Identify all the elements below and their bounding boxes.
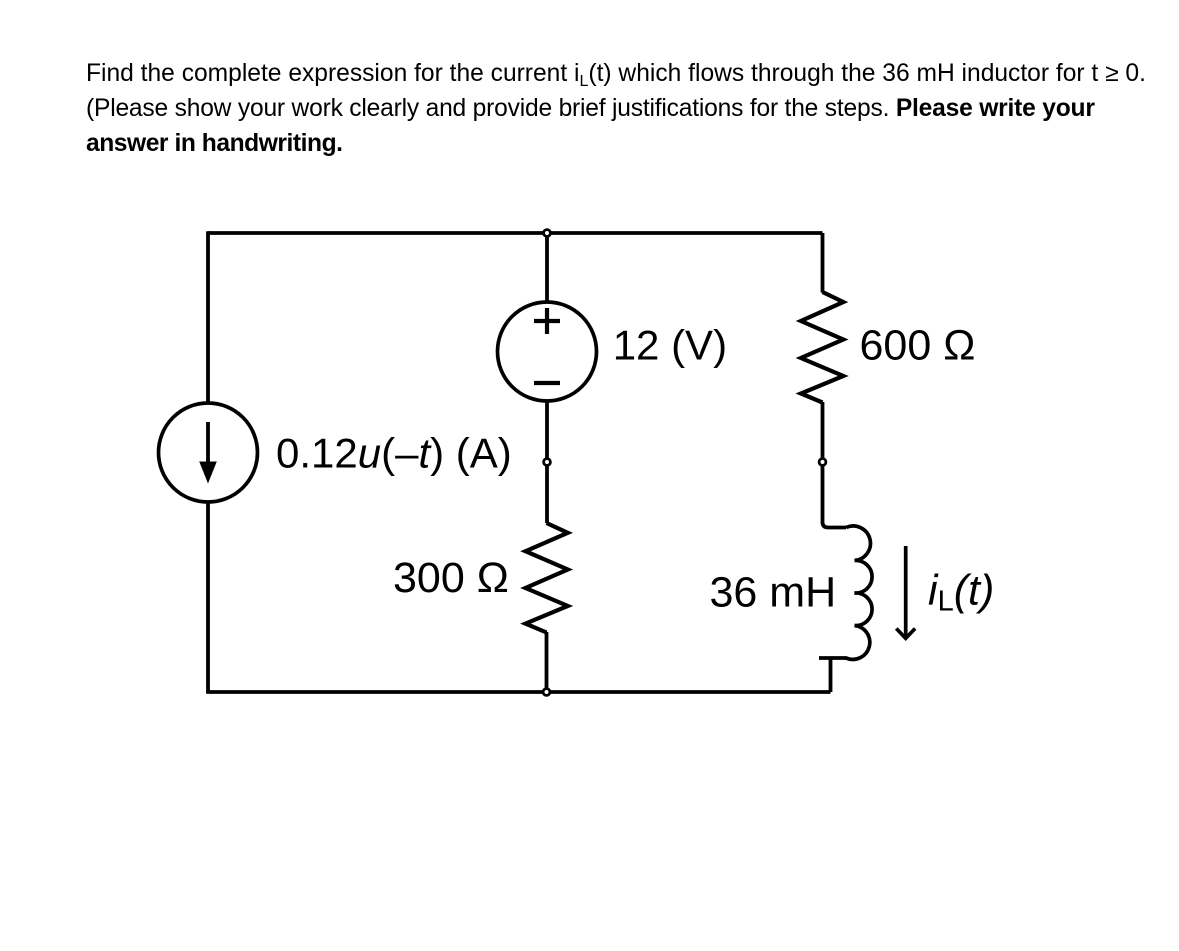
node middle branch [544, 459, 551, 466]
wire right branch between resistor and inductor [821, 402, 825, 524]
node bottom junction [543, 689, 550, 696]
current source I1 0.12u(-t) A [159, 403, 258, 502]
wire bottom horizontal [206, 690, 830, 694]
wire middle branch below resistor [545, 632, 549, 692]
wire inductor bottom pigtail [829, 658, 833, 692]
wire middle branch upper [545, 233, 549, 303]
svg-text:12 (V): 12 (V) [613, 322, 727, 369]
resistor 300 ohm [526, 523, 568, 633]
wire top horizontal [208, 231, 823, 235]
svg-text:300 Ω: 300 Ω [393, 554, 509, 602]
wire left vertical upper [206, 231, 210, 403]
node right branch [819, 459, 826, 466]
current arrow iL(t) [896, 546, 915, 638]
svg-text:0.12u(–t) (A): 0.12u(–t) (A) [276, 430, 512, 477]
wire left vertical lower [206, 502, 210, 693]
wire right branch upper [821, 233, 825, 293]
svg-text:36 mH: 36 mH [710, 569, 837, 617]
resistor 600 ohm [801, 292, 843, 403]
inductor 36 mH [819, 522, 872, 659]
node top junction [544, 230, 551, 237]
problem statement paragraph [86, 56, 1176, 161]
svg-text:600 Ω: 600 Ω [860, 322, 976, 370]
voltage source V1 12 V [498, 302, 597, 401]
wire middle branch between source and node [545, 401, 549, 524]
svg-text:iL(t): iL(t) [928, 567, 994, 618]
